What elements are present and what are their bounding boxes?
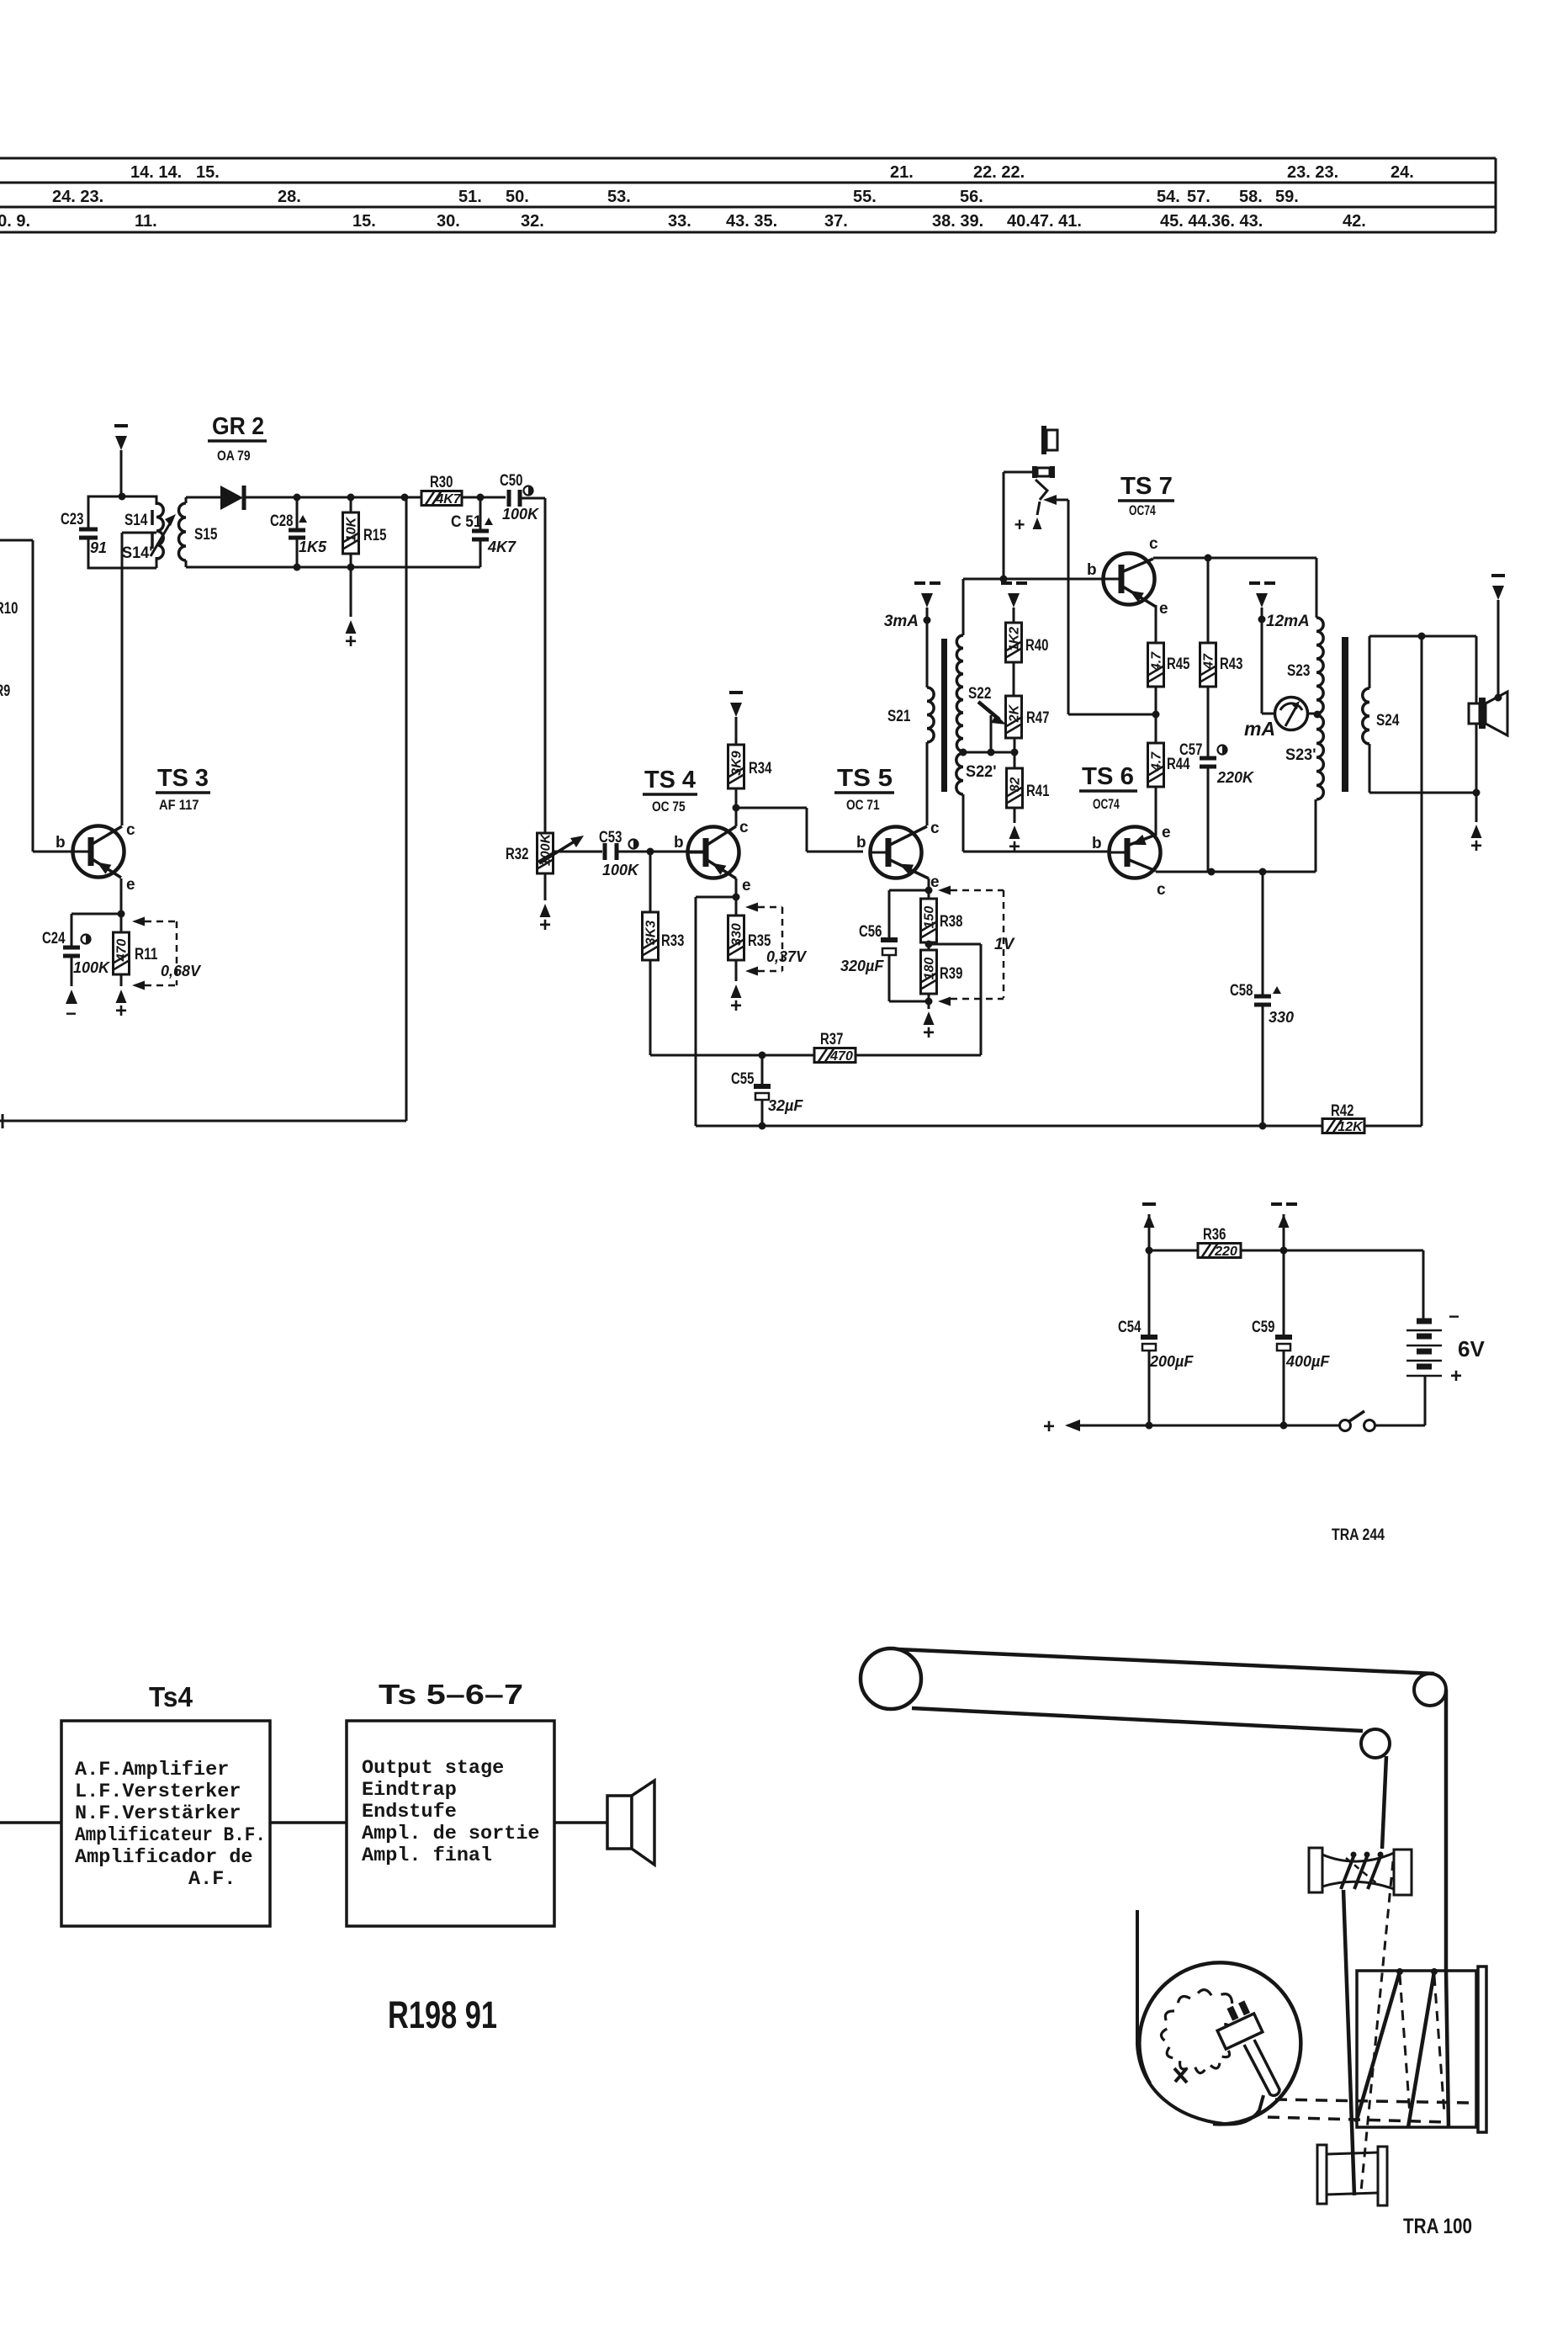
svg-text:c: c xyxy=(1157,881,1166,899)
svg-text:+: + xyxy=(345,630,357,653)
node AGC takeoff xyxy=(401,494,409,502)
terminal plus below R39 xyxy=(924,1011,935,1025)
terminal minus above S21 xyxy=(926,608,929,620)
node R36 right xyxy=(1280,1247,1288,1255)
svg-text:−: − xyxy=(66,1003,77,1024)
svg-text:C58: C58 xyxy=(1230,982,1253,1000)
node R36 left xyxy=(1146,1247,1153,1255)
tuned circuit box S14 xyxy=(88,496,156,568)
svg-text:14. 14.: 14. 14. xyxy=(130,163,182,182)
terminal plus below R41 xyxy=(1009,825,1020,839)
svg-text:+: + xyxy=(115,1000,127,1022)
capacitor C57 xyxy=(1200,756,1216,761)
terminal minus above R34 xyxy=(730,703,742,717)
svg-text:+: + xyxy=(1014,514,1025,535)
svg-text:+: + xyxy=(1450,1365,1462,1388)
svg-text:+: + xyxy=(923,1022,935,1044)
capacitor C54 xyxy=(1148,1250,1151,1335)
wire AGC line from left edge to node under C50 line xyxy=(0,1120,406,1123)
capacitor C59 xyxy=(1283,1250,1285,1335)
node TS4 emitter xyxy=(733,894,740,901)
wire C50 to volume control R32 xyxy=(520,497,545,500)
node C58 bottom xyxy=(1259,1123,1267,1130)
resistor R33 xyxy=(649,852,652,912)
svg-text:TS 6: TS 6 xyxy=(1082,763,1134,790)
svg-text:S15: S15 xyxy=(194,526,218,544)
wire TS5 emitter xyxy=(928,878,930,890)
svg-text:15.: 15. xyxy=(196,163,220,182)
transformer core S23-S24 xyxy=(1342,637,1348,792)
svg-text:C50: C50 xyxy=(500,472,522,490)
transistor TS3 xyxy=(73,826,124,878)
transistor TS7 xyxy=(1104,554,1155,605)
svg-text:10. 9.: 10. 9. xyxy=(0,212,30,231)
wire S22 tap to R47 bottom xyxy=(963,751,1014,754)
wire TS5 collector to S21 xyxy=(926,742,929,825)
earphone xyxy=(1041,426,1046,454)
wire between blocks xyxy=(270,1821,347,1824)
svg-text:30.: 30. xyxy=(437,212,460,231)
capacitor C56 xyxy=(889,889,929,892)
node 12mA xyxy=(1258,616,1266,624)
wire R32 to C53 xyxy=(553,851,602,853)
svg-text:330: 330 xyxy=(1269,1009,1294,1026)
svg-text:−: − xyxy=(1449,1306,1459,1327)
capacitor C28 xyxy=(296,497,299,528)
wire TS7 base rail xyxy=(963,578,1121,581)
resistor R40 xyxy=(1006,623,1022,662)
parts-location strip table xyxy=(0,157,1496,160)
wire into Ts4 box xyxy=(0,1821,61,1824)
terminal minus above C54 xyxy=(1144,1214,1155,1228)
svg-text:A.F.: A.F. xyxy=(188,1868,236,1891)
svg-text:21.: 21. xyxy=(890,163,914,182)
capacitor C51 xyxy=(479,497,482,529)
node S24 bottom xyxy=(1473,789,1481,797)
resistor R30 xyxy=(421,491,462,506)
resistor R42 xyxy=(1263,1125,1322,1128)
resistor R36 xyxy=(1149,1250,1198,1252)
cord spool to lower spool xyxy=(1343,1890,1354,2195)
pointer rod xyxy=(1244,2040,1279,2095)
svg-text:43. 35.: 43. 35. xyxy=(726,212,777,231)
terminal plus below R15 xyxy=(350,567,352,617)
tuning drum flange xyxy=(1478,1966,1486,2132)
wire TS4 collector to TS5 base xyxy=(736,807,807,809)
svg-text:3K3: 3K3 xyxy=(644,921,659,945)
svg-text:TS 4: TS 4 xyxy=(644,767,696,793)
node S14 top xyxy=(119,493,126,501)
node TS4 collector xyxy=(733,804,740,812)
cord return dashed xyxy=(1361,1861,1393,2191)
svg-text:C23: C23 xyxy=(61,511,83,528)
svg-text:OA 79: OA 79 xyxy=(217,448,251,464)
cord idler to tension spool xyxy=(1382,1756,1386,1849)
svg-text:C53: C53 xyxy=(599,829,622,847)
node R38-R39 junction xyxy=(925,941,933,948)
svg-text:+: + xyxy=(539,914,551,937)
svg-text:c: c xyxy=(739,819,749,836)
svg-text:15.: 15. xyxy=(352,212,376,231)
wire jack to R45-R44 junction xyxy=(1067,500,1070,714)
svg-text:mA: mA xyxy=(1244,718,1275,740)
capacitor C55 xyxy=(761,1055,764,1085)
node R45-R44 junction xyxy=(1152,711,1160,719)
svg-text:R40: R40 xyxy=(1025,637,1048,655)
node C54 bottom xyxy=(1146,1422,1153,1430)
svg-text:58.: 58. xyxy=(1239,188,1263,206)
node C58 top xyxy=(1259,868,1267,876)
svg-text:1V: 1V xyxy=(994,936,1015,953)
svg-text:37.: 37. xyxy=(824,212,848,231)
wire C53 to TS4 base xyxy=(617,851,706,853)
node R15 bottom xyxy=(347,564,355,571)
svg-text:+: + xyxy=(730,995,742,1017)
svg-text:12mA: 12mA xyxy=(1266,613,1310,630)
resistor R34 xyxy=(735,788,738,826)
svg-text:220K: 220K xyxy=(1216,769,1255,786)
node S23 tap xyxy=(1314,711,1322,719)
svg-text:+: + xyxy=(1009,836,1020,858)
terminal plus below R11 xyxy=(116,990,127,1003)
transformer secondary S24 xyxy=(1369,635,1476,638)
wire positive rail xyxy=(1078,1425,1339,1427)
svg-text:OC 71: OC 71 xyxy=(846,798,880,813)
terminal minus above R40 xyxy=(1008,593,1020,608)
svg-text:50.: 50. xyxy=(506,188,529,206)
idler pulley right xyxy=(1414,1674,1446,1706)
svg-text:TS 5: TS 5 xyxy=(837,765,893,792)
wire TS7 collector rail xyxy=(1153,557,1316,560)
node C28 bottom xyxy=(294,564,301,571)
svg-text:A.F.Amplifier: A.F.Amplifier xyxy=(75,1759,229,1781)
capacitor C23 xyxy=(79,528,98,532)
jack switch contact xyxy=(1036,480,1047,500)
node C28 top xyxy=(294,494,301,502)
svg-text:C 51: C 51 xyxy=(451,513,482,531)
volume control R32 xyxy=(538,833,554,873)
svg-text:56.: 56. xyxy=(960,188,983,206)
svg-text:82: 82 xyxy=(1009,778,1023,793)
svg-text:R42: R42 xyxy=(1331,1102,1353,1120)
svg-text:11.: 11. xyxy=(135,212,157,231)
resistor R45 xyxy=(1155,605,1157,643)
svg-text:TS 7: TS 7 xyxy=(1120,473,1173,500)
svg-text:Amplificador de: Amplificador de xyxy=(75,1846,253,1869)
svg-text:R38: R38 xyxy=(940,913,962,931)
svg-text:c: c xyxy=(930,820,940,837)
svg-text:100K: 100K xyxy=(73,959,111,976)
battery 6V xyxy=(1422,1250,1425,1319)
wire to block speaker xyxy=(554,1821,607,1824)
node R47 bottom xyxy=(1011,749,1019,756)
svg-text:470: 470 xyxy=(115,939,130,963)
transistor TS6 (emitter up) xyxy=(1110,827,1161,878)
svg-text:R45: R45 xyxy=(1167,655,1190,673)
tension spool xyxy=(1309,1848,1322,1892)
svg-text:L.F.Versterker: L.F.Versterker xyxy=(75,1781,241,1803)
wire plug branch from TS7 base node xyxy=(1003,472,1005,579)
svg-text:R30: R30 xyxy=(430,474,453,491)
svg-text:38. 39.: 38. 39. xyxy=(932,212,983,231)
terminal plus below R32 xyxy=(540,904,551,917)
node R30 right xyxy=(477,494,485,502)
svg-text:e: e xyxy=(742,877,751,894)
trimmer R47 xyxy=(1006,696,1022,738)
svg-text:TS 3: TS 3 xyxy=(157,765,209,792)
inductor S15 xyxy=(179,503,187,560)
svg-text:b: b xyxy=(56,834,66,852)
diode GR2 xyxy=(220,486,243,510)
svg-text:R41: R41 xyxy=(1026,783,1050,800)
wire TS4 emitter to node xyxy=(735,878,738,897)
capacitor C24 xyxy=(71,914,73,946)
node TS4 base / R33 xyxy=(647,848,654,856)
svg-text:0,68V: 0,68V xyxy=(161,963,202,979)
node TS3 emitter xyxy=(118,910,125,918)
wire emitter node to bottom rail xyxy=(696,896,736,899)
wire S24 right to speaker xyxy=(1475,636,1478,793)
svg-text:R198 91: R198 91 xyxy=(388,1993,497,2036)
terminal plus arrow left xyxy=(1065,1420,1080,1431)
svg-text:55.: 55. xyxy=(853,188,877,206)
svg-text:24. 23.: 24. 23. xyxy=(52,188,103,206)
svg-text:1K5: 1K5 xyxy=(299,539,327,555)
node R15 top xyxy=(347,494,355,502)
svg-text:32.: 32. xyxy=(521,212,544,231)
svg-text:33.: 33. xyxy=(668,212,691,231)
svg-text:C54: C54 xyxy=(1118,1319,1142,1336)
svg-text:R15: R15 xyxy=(363,527,387,544)
svg-text:400µF: 400µF xyxy=(1285,1353,1330,1370)
svg-text:S22': S22' xyxy=(966,763,997,781)
resistor R11 xyxy=(120,914,123,932)
svg-text:R34: R34 xyxy=(749,760,772,778)
svg-text:C55: C55 xyxy=(731,1070,755,1088)
svg-text:e: e xyxy=(1162,824,1171,841)
node TS7 base xyxy=(1000,576,1008,583)
transformer secondary S22 / S22' xyxy=(962,579,965,635)
svg-text:R10: R10 xyxy=(0,600,18,618)
pointer line upper dashed xyxy=(1275,2099,1470,2103)
capacitor C50 xyxy=(507,490,511,507)
wire TS6 base xyxy=(963,851,1110,853)
measurement 0,68V bracket xyxy=(132,917,145,926)
resistor R43 xyxy=(1207,558,1210,643)
resistor R15 xyxy=(350,497,352,512)
svg-text:23. 23.: 23. 23. xyxy=(1287,163,1338,182)
svg-text:4K7: 4K7 xyxy=(435,492,461,507)
transistor TS5 xyxy=(871,827,922,878)
resistor R44 xyxy=(1155,714,1157,743)
svg-text:Ampl. de sortie: Ampl. de sortie xyxy=(362,1823,540,1845)
wire S14 tap down to TS3 collector xyxy=(122,532,156,534)
svg-text:Ts 5–6–7: Ts 5–6–7 xyxy=(379,1679,523,1710)
svg-text:330: 330 xyxy=(730,923,744,946)
svg-text:220: 220 xyxy=(1214,1245,1237,1259)
wire bottom rail to R42 xyxy=(696,1125,1263,1128)
on-off switch xyxy=(1340,1420,1351,1431)
svg-text:R36: R36 xyxy=(1203,1226,1226,1244)
terminal minus above S14 xyxy=(115,436,127,450)
wire R42 up to S24 xyxy=(1421,636,1423,1126)
svg-text:b: b xyxy=(856,834,866,852)
tuning capacitor drum xyxy=(1139,1962,1300,2124)
wire detector bottom rail xyxy=(186,566,480,569)
wire R44 to TS6 emitter xyxy=(1155,787,1157,836)
svg-text:R9: R9 xyxy=(0,682,10,700)
spring spiral inside drum xyxy=(1161,1990,1232,2073)
node speaker top xyxy=(1495,694,1502,702)
block loudspeaker xyxy=(607,1796,632,1849)
svg-text:42.: 42. xyxy=(1343,212,1366,231)
svg-text:S14': S14' xyxy=(122,544,153,562)
node R43 bottom xyxy=(1208,868,1216,876)
svg-text:Eindtrap: Eindtrap xyxy=(362,1779,457,1802)
cord around capacitor drum xyxy=(1137,1910,1263,2124)
svg-text:1K2: 1K2 xyxy=(1008,627,1022,651)
pointer line lower dashed xyxy=(1268,2117,1449,2122)
svg-text:53.: 53. xyxy=(607,188,631,206)
capacitor C53 xyxy=(603,843,607,860)
svg-text:R32: R32 xyxy=(506,846,528,863)
svg-text:R37: R37 xyxy=(820,1031,843,1048)
svg-text:c: c xyxy=(126,821,135,839)
svg-text:Endstufe: Endstufe xyxy=(362,1801,457,1823)
svg-text:R43: R43 xyxy=(1220,655,1242,673)
svg-text:2K: 2K xyxy=(1008,703,1022,723)
svg-text:+: + xyxy=(1043,1415,1055,1438)
svg-text:Output stage: Output stage xyxy=(362,1757,504,1780)
node TS5 emitter xyxy=(925,887,933,894)
measurement 0,37V bracket xyxy=(745,903,758,912)
svg-text:40.47. 41.: 40.47. 41. xyxy=(1007,212,1082,231)
svg-text:3mA: 3mA xyxy=(884,613,919,630)
svg-text:6V: 6V xyxy=(1458,1336,1485,1361)
svg-text:b: b xyxy=(1087,561,1097,579)
svg-text:59.: 59. xyxy=(1275,188,1299,206)
svg-text:S14: S14 xyxy=(124,512,148,529)
dial cord lower run xyxy=(912,1708,1363,1731)
svg-text:S23: S23 xyxy=(1287,662,1310,680)
node 3mA xyxy=(924,617,931,624)
block box Ts4 xyxy=(61,1721,270,1926)
wire TS6 collector rail xyxy=(1156,871,1316,873)
svg-text:12K: 12K xyxy=(1338,1120,1364,1134)
svg-text:4.7: 4.7 xyxy=(1150,651,1164,671)
svg-text:AF 117: AF 117 xyxy=(159,798,199,813)
transistor TS4 xyxy=(688,827,739,878)
spring inner anchor xyxy=(1174,2068,1187,2083)
svg-text:S23': S23' xyxy=(1285,746,1316,764)
svg-text:S22: S22 xyxy=(968,685,991,703)
transformer winding S23 / S23' xyxy=(1316,618,1323,714)
node R43 top xyxy=(1205,555,1212,562)
svg-text:Amplificateur B.F.: Amplificateur B.F. xyxy=(75,1824,266,1847)
terminal plus below speaker xyxy=(1475,793,1478,822)
svg-text:57.: 57. xyxy=(1187,188,1210,206)
svg-text:C24: C24 xyxy=(42,930,66,947)
dial cord upper run xyxy=(898,1649,1434,1674)
wire junction to feedback rail xyxy=(929,943,981,946)
svg-text:R35: R35 xyxy=(748,932,771,950)
svg-text:32µF: 32µF xyxy=(768,1097,803,1114)
capacitor C58 xyxy=(1262,872,1264,995)
svg-text:51.: 51. xyxy=(458,188,482,206)
svg-text:R33: R33 xyxy=(661,932,684,950)
svg-text:320µF: 320µF xyxy=(840,958,884,974)
svg-text:45. 44.36. 43.: 45. 44.36. 43. xyxy=(1160,212,1263,231)
svg-text:TRA 244: TRA 244 xyxy=(1332,1526,1385,1544)
svg-text:100K: 100K xyxy=(502,506,540,523)
cord clamp on capacitor drum xyxy=(1217,2014,1263,2049)
svg-text:+: + xyxy=(1470,835,1482,857)
svg-text:100K: 100K xyxy=(602,862,640,878)
svg-text:S24: S24 xyxy=(1376,712,1400,730)
svg-text:R39: R39 xyxy=(940,965,962,983)
node C55 top xyxy=(759,1052,766,1059)
wire emitter node to C24 xyxy=(72,913,121,916)
svg-text:OC 75: OC 75 xyxy=(652,799,686,815)
idler pulley middle xyxy=(1361,1729,1390,1758)
resistor R39 xyxy=(921,950,937,994)
terminal minus above speaker xyxy=(1492,586,1504,600)
svg-text:10K: 10K xyxy=(345,516,359,542)
svg-text:e: e xyxy=(126,876,135,894)
cord wraps on tension spool xyxy=(1341,1855,1354,1889)
node R47 wiper xyxy=(988,749,995,756)
svg-text:C59: C59 xyxy=(1252,1319,1274,1336)
loudspeaker xyxy=(1469,703,1480,724)
svg-text:91: 91 xyxy=(90,539,107,556)
cord idler to drum xyxy=(1446,1690,1449,2128)
svg-text:N.F.Verstärker: N.F.Verstärker xyxy=(75,1802,241,1825)
inductor S14 / S14' with adjustable core xyxy=(156,503,163,559)
tuning drum xyxy=(1357,1971,1476,2127)
svg-text:b: b xyxy=(1092,835,1102,852)
svg-text:3K9: 3K9 xyxy=(730,751,744,775)
svg-text:C57: C57 xyxy=(1179,741,1202,759)
node R39 bottom xyxy=(925,998,933,1006)
svg-text:OC74: OC74 xyxy=(1093,797,1120,812)
terminal minus above meter xyxy=(1261,608,1263,619)
svg-text:470: 470 xyxy=(829,1049,853,1064)
svg-text:R47: R47 xyxy=(1026,709,1049,727)
svg-text:S21: S21 xyxy=(887,708,911,725)
svg-text:4K7: 4K7 xyxy=(487,539,516,555)
node C59 bottom xyxy=(1280,1422,1288,1430)
wire from previous stage to TS3 base xyxy=(0,539,33,542)
wire meter to 12mA node xyxy=(1261,619,1263,714)
svg-text:TRA 100: TRA 100 xyxy=(1403,2215,1472,2238)
svg-text:0,37V: 0,37V xyxy=(766,948,808,965)
resistor R38 xyxy=(928,890,930,899)
milliampere meter xyxy=(1262,713,1275,715)
node C55 bottom xyxy=(759,1123,766,1130)
svg-text:C56: C56 xyxy=(859,923,882,941)
svg-text:e: e xyxy=(1159,600,1168,618)
svg-text:22. 22.: 22. 22. xyxy=(973,163,1025,182)
svg-text:R11: R11 xyxy=(135,946,158,963)
node S22 tap xyxy=(960,749,967,756)
svg-text:b: b xyxy=(674,834,684,852)
feedback rail with R37 xyxy=(650,1054,814,1057)
transformer primary S21 xyxy=(927,687,934,742)
measurement 1V bracket xyxy=(938,886,951,895)
svg-text:200µF: 200µF xyxy=(1149,1353,1194,1370)
svg-text:Ampl. final: Ampl. final xyxy=(362,1844,492,1867)
svg-text:28.: 28. xyxy=(278,188,301,206)
